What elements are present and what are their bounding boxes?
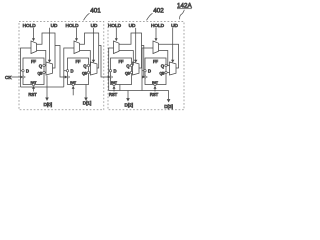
svg-text:Q: Q (126, 63, 129, 68)
mux M2b up/down-select multiplexer (91, 62, 98, 75)
wire HOLD select arrow into mux M2a (75, 28, 78, 41)
wire mux M1a output to D input of FF1 (21, 48, 32, 87)
svg-text:401: 401 (90, 7, 101, 14)
wire Q4 hold feedback to mux M4a lower input (159, 51, 168, 66)
wire QB3 output to mux M3b (132, 72, 134, 74)
svg-text:QB: QB (159, 72, 165, 76)
svg-text:RST: RST (150, 92, 159, 97)
svg-text:QB: QB (37, 72, 43, 76)
svg-text:HOLD: HOLD (65, 23, 79, 28)
node UD label (cell 4) (171, 23, 178, 28)
wire data output D[0] with arrowhead (45, 76, 49, 101)
svg-text:D: D (71, 68, 74, 73)
svg-text:RST: RST (109, 92, 118, 97)
svg-text:FF: FF (75, 59, 81, 64)
wire data output D[2] with arrowhead (120, 85, 130, 102)
wire CK input line with arrowhead into FF1 clock (12, 76, 24, 79)
svg-text:D: D (148, 68, 151, 73)
node D[0] output label (43, 102, 52, 107)
wire mux M4a output to D input of FF4 (142, 48, 153, 91)
svg-text:UD: UD (91, 23, 98, 28)
wire HOLD select arrow into mux M1a (32, 28, 35, 41)
svg-text:D[3]: D[3] (164, 104, 173, 109)
svg-text:Q: Q (161, 63, 164, 68)
wire UD select arrow into mux M1b (48, 28, 51, 63)
mux M1a hold-select multiplexer (31, 41, 37, 54)
node D[2] output label (124, 103, 133, 108)
mux M3b up/down-select multiplexer (133, 62, 140, 75)
wire Q1 hold feedback to mux M1a lower input (37, 51, 46, 66)
wire HOLD select arrow into mux M3a (115, 28, 118, 41)
svg-text:402: 402 (153, 7, 164, 14)
node reference numeral 142A with leader (177, 3, 193, 20)
wire UD select arrow into mux M2b (92, 28, 95, 63)
wire mux M2b output loop to mux M2a upper input (80, 33, 99, 68)
svg-text:CK: CK (5, 75, 12, 80)
mux M4a hold-select multiplexer (153, 41, 159, 54)
mux M2a hold-select multiplexer (74, 41, 80, 54)
node D[1] output label (83, 101, 92, 106)
node RST label (cell 4) (150, 92, 159, 97)
wire HOLD select arrow into mux M4a (155, 28, 158, 41)
svg-text:HOLD: HOLD (151, 23, 165, 28)
node HOLD label (cell 3) (108, 23, 122, 28)
svg-text:UD: UD (129, 23, 136, 28)
svg-text:UD: UD (51, 23, 58, 28)
wire ripple clock from mux M2b to FF3 clock (99, 46, 111, 79)
wire UD select arrow into mux M4b (171, 28, 174, 63)
svg-text:QB: QB (82, 72, 88, 76)
wire Q3 hold feedback to mux M3a lower input (119, 51, 133, 66)
node UD label (cell 1) (51, 23, 58, 28)
node RST label (cell 1) (28, 92, 37, 97)
node UD label (cell 3) (129, 23, 136, 28)
svg-text:UD: UD (171, 23, 178, 28)
wire Q2 output to mux M2b (89, 65, 92, 67)
wire RST input stub of FF2 (72, 86, 75, 96)
svg-text:RST: RST (28, 92, 37, 97)
wire ripple clock from mux M1b to FF2 clock (55, 46, 68, 79)
wire data output D[3] with arrowhead (167, 91, 171, 103)
flip-flop FF3 (109, 58, 132, 86)
node HOLD label (cell 2) (65, 23, 79, 28)
svg-text:HOLD: HOLD (108, 23, 122, 28)
wire ripple clock from mux M3b to FF4 clock (142, 46, 146, 79)
wire under-run from mux M1a output trunk to FF2 D-feed (21, 86, 64, 88)
wire UD select arrow into mux M3b (134, 28, 137, 63)
svg-text:D[2]: D[2] (124, 103, 133, 108)
flip-flop FF2 (66, 58, 89, 86)
wire under-run across block 402 feeding D[2] and D[3] outputs (109, 90, 169, 92)
svg-text:QB: QB (125, 72, 131, 76)
wire RST input stub of FF3 (113, 86, 116, 92)
flip-flop FF4 (144, 58, 167, 86)
wire RST input stub of FF4 (154, 86, 157, 92)
svg-text:D[1]: D[1] (83, 101, 92, 106)
wire QB1 output to mux M1b (44, 72, 47, 74)
wire QB4 output to mux M4b (167, 72, 169, 74)
node reference numeral 402 with leader (147, 7, 165, 20)
flip-flop FF1 (22, 58, 45, 86)
wire Q2 hold feedback to mux M2a lower input (80, 51, 91, 66)
wire Q1 output to mux M1b (44, 65, 47, 67)
svg-text:D: D (114, 68, 117, 73)
svg-text:FF: FF (118, 59, 124, 64)
mux M3a hold-select multiplexer (114, 41, 120, 54)
wire mux M3a output to D input of FF3 (109, 48, 114, 91)
wire mux M2a output to D input of FF2 (64, 48, 74, 87)
wire RST input stub of FF1 (32, 86, 35, 92)
svg-text:FF: FF (153, 59, 159, 64)
node CK input label (5, 75, 12, 80)
wire Q3 output to mux M3b (132, 65, 134, 67)
svg-text:HOLD: HOLD (23, 23, 37, 28)
node HOLD label (cell 1) (23, 23, 37, 28)
wire QB2 output to mux M2b (89, 72, 92, 74)
block 402 dashed boundary (108, 22, 184, 110)
wire mux M3b output loop to mux M3a upper input (119, 33, 142, 68)
svg-text:D[0]: D[0] (43, 102, 52, 107)
mux M1b up/down-select multiplexer (46, 62, 53, 75)
node RST label (cell 3) (109, 92, 118, 97)
node reference numeral 401 with leader (84, 7, 102, 20)
svg-text:D: D (26, 68, 29, 73)
svg-text:Q: Q (39, 63, 42, 68)
node D[3] output label (164, 104, 173, 109)
block 401 dashed boundary (19, 22, 104, 110)
wire mux M1b output loop to mux M1a upper input (37, 33, 56, 68)
node UD label (cell 2) (91, 23, 98, 28)
mux M4b up/down-select multiplexer (170, 62, 177, 75)
wire mux M4b output loop to mux M4a upper input (159, 44, 179, 68)
svg-text:FF: FF (31, 59, 37, 64)
wire data output D[1] with arrowhead (84, 85, 88, 101)
svg-text:Q: Q (83, 63, 86, 68)
wire Q4 output to mux M4b (167, 65, 169, 67)
node HOLD label (cell 4) (151, 23, 165, 28)
